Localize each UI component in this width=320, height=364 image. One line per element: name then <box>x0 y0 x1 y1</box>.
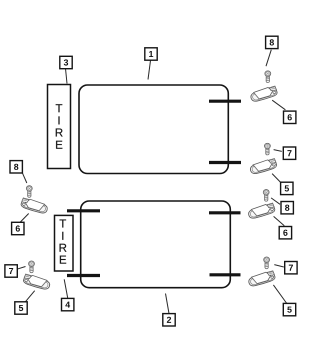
callout 4 <box>61 298 73 310</box>
callout 6 mid right <box>279 227 291 239</box>
callout 5 bottom right <box>283 303 295 315</box>
label R (panel 4) <box>60 244 67 252</box>
bar (lower cover right bottom) <box>210 273 241 276</box>
callout 8 top right <box>266 36 278 48</box>
screw 7 bottom right <box>264 257 270 269</box>
callout 7 bottom right <box>285 262 297 274</box>
leader callout 5 left <box>24 291 34 303</box>
callout 2 <box>163 314 175 326</box>
screw 8 mid right <box>263 190 269 202</box>
label I (panel 4) <box>62 232 63 240</box>
leader callout 6 top right <box>272 100 285 110</box>
callout 8 mid right <box>281 202 293 214</box>
bar (lower cover left bottom) <box>67 274 100 277</box>
panel 4 (lower TIRE placard) <box>55 215 74 271</box>
bracket 6 top right <box>250 86 278 102</box>
label E (panel 4) <box>60 256 66 264</box>
callout 5 mid right <box>281 182 293 194</box>
bracket 6 mid right <box>247 203 275 219</box>
label T (panel 4) <box>60 220 67 228</box>
leader callout 8 top right <box>266 50 271 66</box>
leader callout 1 <box>148 61 151 80</box>
leader callout 7 bottom right <box>274 265 284 267</box>
panel 2 (lower cover) <box>81 201 231 288</box>
leader callout 5 bottom right <box>273 285 286 304</box>
leader callout 3 <box>66 69 68 84</box>
callout 1 <box>145 48 157 60</box>
leader callout 6 left <box>20 214 29 223</box>
bracket 5 mid right <box>249 158 277 174</box>
leader callout 7 left <box>15 267 25 270</box>
screw 7 left <box>29 261 35 273</box>
screw 7 mid right <box>265 143 271 155</box>
bracket 6 left <box>20 198 48 214</box>
callout 5 left <box>15 302 27 314</box>
label E (panel 3) <box>56 141 62 149</box>
bar (lower cover left top) <box>67 209 100 212</box>
callout 3 <box>60 56 72 68</box>
callout 8 left <box>10 161 22 173</box>
bar (upper cover right top) <box>209 100 241 103</box>
label T (panel 3) <box>56 104 63 112</box>
bracket 5 bottom right <box>248 270 276 286</box>
label I (panel 3) <box>58 116 59 124</box>
bar (upper cover right bottom) <box>209 161 241 164</box>
callout 6 top right <box>284 111 296 123</box>
leader callout 2 <box>166 294 170 314</box>
callout 6 left <box>12 222 24 234</box>
screw 8 left <box>26 186 32 198</box>
leader callout 8 left <box>22 173 27 183</box>
leader callout 4 <box>64 279 68 298</box>
panel 3 (upper TIRE placard) <box>48 85 71 169</box>
screw 8 top right <box>265 71 271 83</box>
label R (panel 3) <box>56 129 63 137</box>
leader callout 8 mid right <box>271 198 280 204</box>
leader callout 6 mid right <box>274 216 285 225</box>
callout 7 left <box>5 265 17 277</box>
bracket 5 left <box>23 274 51 290</box>
panel 1 (upper cover) <box>79 85 228 174</box>
leader callout 5 mid right <box>272 174 281 183</box>
bar (lower cover right top) <box>209 211 241 214</box>
leader callout 7 mid right <box>274 150 282 152</box>
callout 7 mid right <box>283 147 295 159</box>
